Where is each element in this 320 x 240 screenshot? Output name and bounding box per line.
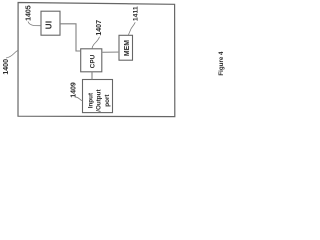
svg-text:Figure 4: Figure 4 xyxy=(218,51,225,76)
svg-text:UI: UI xyxy=(44,20,53,29)
svg-text:1407: 1407 xyxy=(96,20,103,36)
svg-text:CPU: CPU xyxy=(89,54,96,68)
svg-text:1409: 1409 xyxy=(71,82,78,98)
svg-text:1411: 1411 xyxy=(133,6,140,21)
svg-text:1400: 1400 xyxy=(3,59,10,75)
block MEM box xyxy=(119,35,133,60)
block CPU box xyxy=(81,49,102,72)
block I/O port box xyxy=(83,80,113,113)
svg-text:MEM: MEM xyxy=(124,40,131,56)
leader to 1400 xyxy=(6,50,18,58)
wire UI to CPU xyxy=(60,24,81,51)
leader to 1409 xyxy=(75,97,82,101)
leader to 1405 xyxy=(28,22,41,26)
wire CPU to MEM xyxy=(102,51,119,53)
leader to 1411 xyxy=(128,22,135,35)
block 1400 outer box xyxy=(18,3,175,117)
svg-text:Input/Outputport: Input/Outputport xyxy=(88,89,111,112)
wire CPU to I/O port xyxy=(91,72,93,80)
block U1 UI box xyxy=(41,11,60,35)
leader to 1407 xyxy=(92,37,100,49)
svg-text:1405: 1405 xyxy=(26,5,33,21)
